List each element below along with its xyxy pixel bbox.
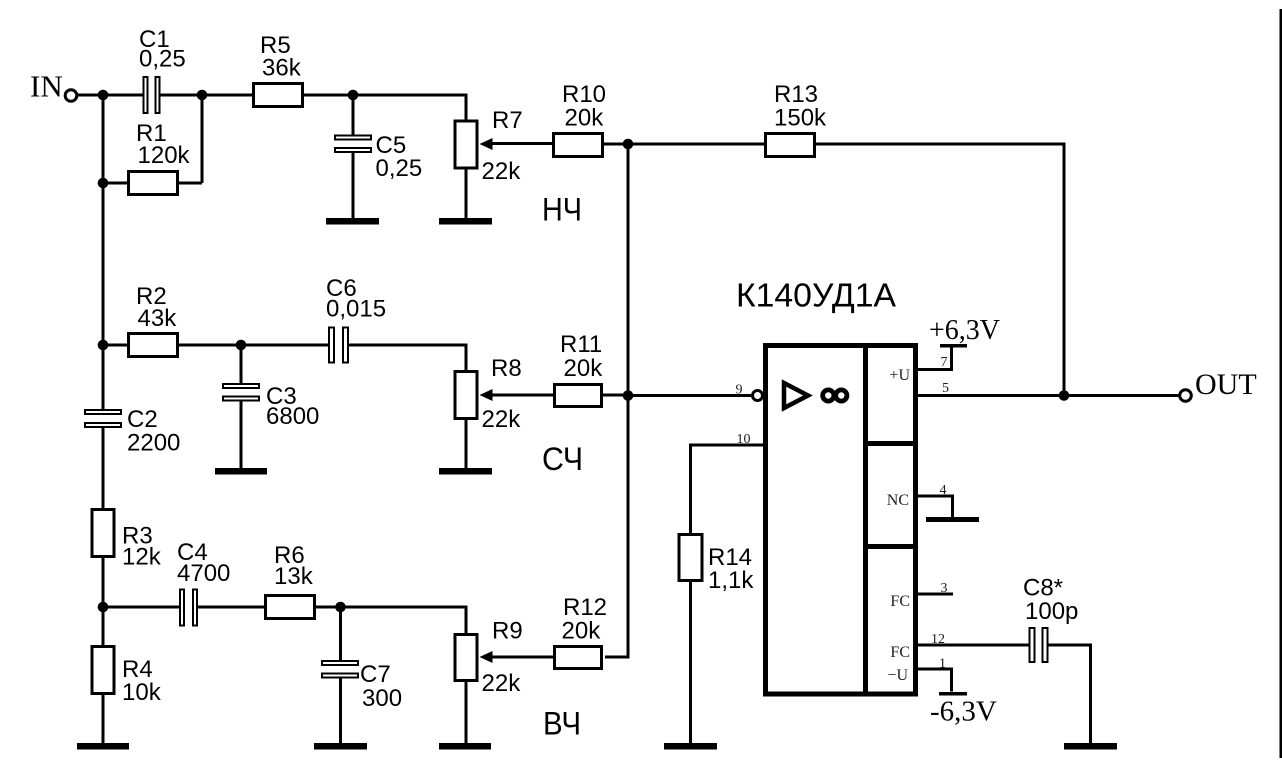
wire R1 right to riser bbox=[177, 182, 202, 185]
power bar +6.3V bbox=[940, 344, 967, 348]
ground under C3 bbox=[215, 468, 267, 475]
svg-text:9: 9 bbox=[736, 383, 743, 398]
capacitor C8 bbox=[1030, 628, 1048, 662]
resistor R4 bbox=[92, 647, 114, 694]
wire R9 bottom to ground bbox=[465, 681, 468, 745]
wire left bus R1 node to R2 node bbox=[102, 183, 105, 345]
wire C7 branch bbox=[339, 607, 342, 663]
svg-text:OUT: OUT bbox=[1195, 368, 1257, 401]
resistor R12 bbox=[555, 647, 602, 669]
wire bus to R1 left bbox=[103, 182, 130, 185]
wire R10 to bus node bbox=[603, 143, 629, 146]
svg-text:-6,3V: -6,3V bbox=[930, 696, 997, 728]
svg-text:R9: R9 bbox=[492, 618, 523, 645]
svg-text:5: 5 bbox=[942, 381, 949, 396]
capacitor C7 bbox=[322, 661, 358, 678]
wire R3 to VCh node bbox=[102, 558, 105, 608]
wire pin 1 to -6.3V bar bbox=[917, 669, 952, 692]
svg-text:1: 1 bbox=[939, 657, 946, 672]
wire pin 5 to OUT terminal bbox=[917, 394, 1180, 397]
svg-text:СЧ: СЧ bbox=[542, 441, 583, 477]
wire R11 to bus node bbox=[602, 394, 629, 397]
op-amp U1 body bbox=[766, 346, 916, 695]
wire C5 to ground bbox=[352, 152, 355, 220]
wire bus to C2 top bbox=[102, 345, 105, 411]
resistor R10 bbox=[554, 134, 603, 157]
capacitor C3 bbox=[223, 384, 259, 401]
svg-text:0,015: 0,015 bbox=[326, 296, 386, 323]
ground under R7 bbox=[439, 218, 492, 225]
svg-text:ВЧ: ВЧ bbox=[543, 706, 581, 742]
potentiometer R8 body bbox=[455, 372, 477, 419]
ground under R9 bbox=[439, 743, 491, 750]
wire R8 wiper to R11 bbox=[492, 394, 556, 397]
svg-text:R11: R11 bbox=[560, 331, 602, 358]
svg-text:НЧ: НЧ bbox=[542, 192, 582, 228]
wire R14 to ground bbox=[689, 582, 692, 745]
wire C3 to ground bbox=[240, 400, 243, 470]
svg-text:0,25: 0,25 bbox=[376, 155, 423, 182]
ground under R4 bbox=[77, 743, 129, 750]
svg-text:22k: 22k bbox=[482, 406, 522, 433]
svg-text:20k: 20k bbox=[565, 105, 605, 132]
resistor R5 bbox=[254, 84, 303, 107]
wire C6 to R8 top bbox=[349, 345, 467, 372]
ground under C7 bbox=[314, 743, 367, 750]
wire bus node to R13 bbox=[628, 143, 766, 146]
svg-text:К140УД1А: К140УД1А bbox=[736, 277, 896, 314]
wire vertical bus down to R12 bbox=[605, 144, 628, 657]
svg-text:150k: 150k bbox=[774, 105, 827, 132]
svg-text:7: 7 bbox=[941, 355, 948, 370]
wire VCh node to R4 bbox=[102, 607, 105, 647]
node IN junction bbox=[98, 90, 109, 101]
potentiometer R9 wiper arrow bbox=[480, 651, 493, 663]
svg-text:12: 12 bbox=[931, 632, 945, 647]
power bar -6.3V bbox=[939, 692, 967, 696]
wire VCh node to C4 bbox=[103, 606, 180, 609]
op-amp right column divider 2 bbox=[863, 544, 918, 549]
svg-text:R7: R7 bbox=[492, 107, 523, 134]
resistor R13 bbox=[766, 134, 815, 157]
op-amp right column divider 1 bbox=[863, 441, 918, 446]
node C7 branch bbox=[335, 602, 346, 613]
wire R6 to C7 node bbox=[315, 606, 341, 609]
wire R7 wiper to R10 bbox=[492, 142, 554, 145]
op-amp triangle symbol bbox=[784, 383, 808, 408]
resistor R1 bbox=[129, 172, 178, 195]
svg-text:22k: 22k bbox=[482, 158, 522, 185]
node bus SCh row bbox=[623, 390, 634, 401]
resistor R14 bbox=[679, 535, 702, 581]
svg-text:+U: +U bbox=[889, 367, 910, 384]
capacitor C1 bbox=[144, 77, 160, 113]
svg-text:4: 4 bbox=[940, 483, 947, 498]
svg-text:R8: R8 bbox=[491, 355, 522, 382]
wire C3 node to C6 bbox=[241, 344, 329, 347]
svg-text:FC: FC bbox=[890, 644, 910, 661]
wire R1 riser up to top row bbox=[201, 95, 204, 183]
ground under C5 bbox=[326, 218, 379, 225]
svg-text:13k: 13k bbox=[274, 563, 314, 590]
svg-text:0,25: 0,25 bbox=[139, 46, 186, 73]
svg-text:36k: 36k bbox=[262, 55, 302, 82]
node C3 branch bbox=[236, 340, 247, 351]
capacitor C6 bbox=[329, 328, 348, 363]
wire pin 12 to C8 bbox=[917, 644, 1029, 647]
wire R5 to R7 top bbox=[303, 95, 467, 121]
svg-text:22k: 22k bbox=[482, 670, 522, 697]
capacitor C4 bbox=[180, 590, 197, 626]
ground under C8 bbox=[1064, 743, 1117, 750]
wire C7 node to R9 top bbox=[341, 607, 467, 635]
svg-text:20k: 20k bbox=[564, 355, 604, 382]
resistor R2 bbox=[129, 334, 178, 357]
wire bus to R2 left bbox=[103, 344, 130, 347]
wire C2 bottom to R3 bbox=[102, 426, 105, 510]
op-amp inner divider bbox=[863, 343, 868, 697]
svg-text:C7: C7 bbox=[360, 661, 391, 688]
svg-text:120k: 120k bbox=[138, 142, 191, 169]
wire left bus IN node to R1 node bbox=[102, 95, 105, 183]
svg-text:10: 10 bbox=[737, 432, 751, 447]
wire C3 branch bbox=[240, 345, 243, 385]
wire R9 wiper to R12 bbox=[492, 656, 556, 659]
node VCh row left bbox=[98, 602, 109, 613]
svg-text:1,1k: 1,1k bbox=[708, 567, 754, 594]
svg-text:6800: 6800 bbox=[266, 403, 319, 430]
ground under R8 bbox=[439, 468, 492, 475]
svg-text:+6,3V: +6,3V bbox=[929, 315, 1000, 346]
node R2 left bbox=[98, 340, 109, 351]
node R1 top branch bbox=[197, 90, 208, 101]
svg-text:100p: 100p bbox=[1025, 598, 1078, 625]
ground at pin 4 bbox=[926, 517, 979, 522]
resistor R11 bbox=[555, 385, 602, 407]
resistor R3 bbox=[92, 510, 114, 557]
border frame right bbox=[1280, 9, 1282, 758]
wire R2 to C3 node bbox=[178, 344, 242, 347]
svg-text:−U: −U bbox=[887, 667, 908, 684]
capacitor C5 bbox=[335, 136, 371, 153]
svg-text:FC: FC bbox=[890, 593, 910, 610]
node R1 left bbox=[98, 178, 109, 189]
potentiometer R8 wiper arrow bbox=[480, 389, 493, 401]
ground under R14 bbox=[664, 743, 717, 750]
wire C7 to ground bbox=[339, 677, 342, 746]
node output feedback bbox=[1059, 390, 1070, 401]
wire R13 to feedback corner down to OUT node bbox=[815, 144, 1065, 394]
node bus NCh row bbox=[623, 139, 634, 150]
svg-text:NC: NC bbox=[887, 492, 909, 509]
node C5 branch bbox=[348, 90, 359, 101]
wire R4 to ground bbox=[102, 695, 105, 746]
op-amp infinity symbol bbox=[823, 390, 847, 401]
wire pin 7 to +6.3V bar bbox=[917, 346, 952, 370]
wire pin 4 to ground bbox=[917, 496, 953, 518]
wire R8 bottom to ground bbox=[465, 419, 468, 471]
wire op-amp pin 10 to R14 bbox=[691, 445, 765, 535]
potentiometer R9 body bbox=[455, 635, 477, 681]
svg-text:43k: 43k bbox=[138, 305, 178, 332]
wire IN terminal to C1 bbox=[78, 94, 143, 97]
wire bus node to op-amp pin 9 bbox=[628, 394, 752, 397]
op-amp input inversion bubble pin 9 bbox=[753, 391, 763, 401]
svg-text:IN: IN bbox=[30, 69, 63, 104]
wire C1 to R5 bbox=[161, 94, 254, 97]
svg-text:3: 3 bbox=[941, 581, 948, 596]
svg-text:2200: 2200 bbox=[127, 430, 180, 457]
svg-text:300: 300 bbox=[362, 685, 402, 712]
wire R7 bottom to ground bbox=[465, 168, 468, 220]
wire C8 to ground bbox=[1048, 645, 1091, 744]
capacitor C2 bbox=[85, 410, 121, 427]
svg-text:10k: 10k bbox=[122, 679, 162, 706]
wire pin 3 stub bbox=[917, 593, 953, 596]
potentiometer R7 wiper arrow bbox=[480, 138, 493, 150]
svg-text:4700: 4700 bbox=[177, 560, 230, 587]
wire C4 to R6 bbox=[198, 606, 267, 609]
svg-text:20k: 20k bbox=[562, 618, 602, 645]
terminal OUT circle bbox=[1180, 390, 1192, 402]
terminal IN circle bbox=[65, 90, 77, 102]
wire C5 branch from top row bbox=[352, 95, 355, 136]
resistor R6 bbox=[266, 596, 315, 619]
svg-text:12k: 12k bbox=[122, 544, 162, 571]
potentiometer R7 body bbox=[455, 121, 477, 168]
